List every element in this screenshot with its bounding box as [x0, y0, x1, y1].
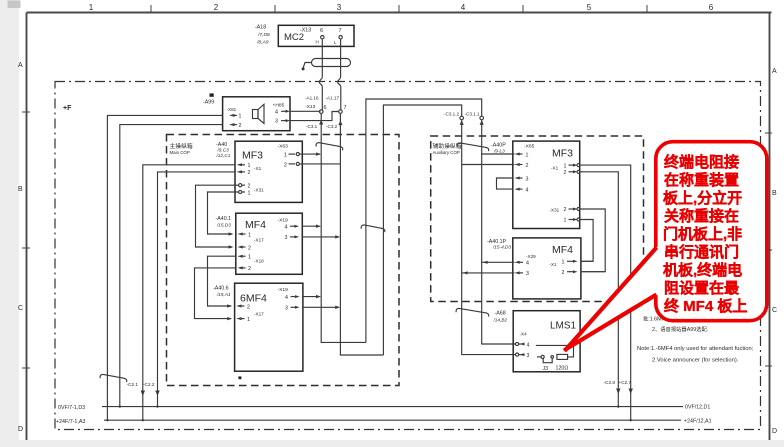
svg-text:A: A [18, 62, 23, 69]
right MF4 pin X29.3 [514, 271, 519, 274]
svg-text:H: H [316, 40, 319, 45]
svg-text:-X4: -X4 [520, 331, 528, 336]
wire H-chain down right section [482, 120, 516, 344]
svg-text:J3: J3 [543, 366, 549, 372]
speaker icon [253, 104, 265, 123]
wire X18.1 to 6MF4 pin2 [208, 256, 236, 306]
svg-text:终端电阻接: 终端电阻接 [664, 153, 739, 171]
MC2 controller box [278, 25, 354, 46]
left MF4 board box [236, 213, 302, 274]
wire X1.1 right and down to +24F bus [580, 165, 631, 420]
svg-text:-A68: -A68 [495, 310, 506, 316]
row ticks left [22, 112, 30, 368]
svg-text:0VF/12,D1: 0VF/12,D1 [685, 405, 710, 411]
svg-text:主操纵箱: 主操纵箱 [170, 142, 193, 150]
balloon tail [565, 246, 659, 351]
svg-text:-A18: -A18 [255, 25, 266, 31]
wire X31.2 to MF4 X17.2 [196, 185, 239, 247]
svg-text:+24F/12,A1: +24F/12,A1 [684, 418, 712, 424]
svg-text:/15-4,D3: /15-4,D3 [492, 244, 511, 249]
svg-text:-C3.1: -C3.1 [306, 124, 318, 129]
svg-text:4: 4 [527, 342, 530, 348]
right MF3 pin X65.1 [514, 153, 519, 156]
svg-text:-X65: -X65 [524, 144, 535, 150]
svg-text:4: 4 [526, 187, 529, 193]
designator -A18 for MC2 [255, 25, 270, 46]
svg-text:-C2.8: -C2.8 [604, 380, 616, 385]
svg-text:Main COP: Main COP [170, 150, 190, 155]
wire X19.4 to H-chain junction [302, 225, 319, 227]
svg-text:C: C [18, 305, 23, 312]
svg-text:1: 1 [248, 255, 251, 261]
wire MC2-6 down [321, 39, 323, 110]
svg-text:-C3.1.2: -C3.1.2 [444, 112, 460, 117]
cable break mark at +F boundary wire 7 [338, 77, 341, 87]
wire 6MF4 X19.4 to H-chain junction [303, 296, 320, 298]
svg-text:3: 3 [337, 3, 342, 12]
speaker pin 2 [229, 123, 235, 126]
svg-text:1: 1 [89, 3, 94, 12]
designator -A68 LMS1 [493, 310, 508, 322]
left MF3 pin X31.1 [239, 190, 242, 193]
svg-text:3: 3 [285, 306, 288, 312]
wire X1.2 left and down to 0VF bus [158, 172, 236, 407]
+F enclosure dash-dot box [55, 82, 761, 430]
svg-text:7: 7 [339, 28, 342, 34]
Auxiliary COP dashed box [431, 136, 644, 302]
svg-text:3: 3 [526, 271, 529, 277]
wire -C2.1 down arrow [141, 391, 145, 397]
svg-text:2、语音报站器A99选配.: 2、语音报站器A99选配. [652, 325, 708, 333]
svg-text:-A40.1: -A40.1 [216, 216, 232, 222]
wire X63.1 to H-chain junction [299, 153, 320, 155]
balloon text [663, 153, 747, 315]
svg-text:1: 1 [564, 218, 567, 224]
svg-text:MF4: MF4 [552, 244, 573, 256]
svg-text:MF3: MF3 [242, 150, 263, 162]
Main COP dashed box [167, 135, 400, 386]
svg-text:C: C [772, 307, 777, 314]
svg-text:5: 5 [587, 3, 592, 12]
svg-text:B: B [772, 190, 777, 197]
junction dots on buses [106, 405, 632, 421]
svg-text:阻设置在最: 阻设置在最 [664, 279, 740, 297]
svg-text:120Ω: 120Ω [556, 365, 569, 371]
wire X31.2 down to right MF4 pin2 [580, 209, 605, 272]
svg-text:2: 2 [247, 304, 250, 310]
ruler column ticks [151, 5, 647, 12]
svg-text:/8,A9: /8,A9 [256, 40, 269, 46]
marker square above A99 [210, 93, 214, 96]
wire -C2.2 down arrow [155, 391, 159, 397]
right MF3 pin X65.4 [514, 188, 519, 191]
speaker pin 4 arrow [281, 110, 287, 112]
svg-text:LMS1: LMS1 [550, 321, 577, 332]
terminal circle 6 lower [319, 110, 323, 114]
designator -A40.1 left MF4 [216, 216, 232, 228]
svg-text:2: 2 [248, 184, 251, 190]
ruler column numbers [89, 3, 714, 12]
LMS1 load weighing box [513, 311, 580, 372]
shield drain dot [302, 67, 305, 70]
svg-text:1: 1 [526, 152, 529, 158]
wire X63.2 to L-chain corner [299, 163, 340, 165]
svg-text:+C2.7: +C2.7 [619, 380, 632, 385]
right MF4 board box [513, 238, 581, 299]
left MF4 pin X18.1 [237, 255, 242, 258]
svg-text:-X1: -X1 [550, 262, 558, 267]
svg-text:板上,分立开: 板上,分立开 [663, 189, 742, 207]
svg-text:-X13: -X13 [305, 104, 316, 110]
svg-text:-C3.2: -C3.2 [326, 124, 338, 129]
wire X65.2 from L-chain [462, 164, 515, 166]
6MF4 board box [235, 283, 303, 371]
row ticks right [765, 133, 772, 366]
cable shield symbol [312, 59, 351, 67]
svg-text:-A99: -A99 [203, 100, 214, 106]
svg-text:2: 2 [239, 123, 242, 129]
svg-text:D: D [772, 428, 777, 435]
wire L-chain vertical from terminal 7 down to corner [340, 113, 383, 355]
svg-text:3: 3 [527, 353, 530, 359]
window gray corner square [8, 1, 21, 9]
wire H-chain riser up and right to -C3.1.1 [366, 99, 482, 342]
svg-text:-X17: -X17 [254, 311, 264, 316]
svg-text:+F: +F [63, 105, 72, 112]
terminal circle 7 [339, 36, 342, 39]
svg-text:6: 6 [324, 105, 327, 111]
LMS1 pin 4 [516, 342, 519, 345]
svg-text:1: 1 [284, 153, 287, 159]
svg-text:MF4: MF4 [245, 219, 266, 231]
svg-text:机板,终端电: 机板,终端电 [663, 261, 742, 279]
speaker H85 box [223, 97, 290, 131]
svg-text:-X17: -X17 [254, 238, 264, 243]
svg-text:-X31: -X31 [550, 208, 560, 213]
svg-text:2: 2 [248, 266, 251, 272]
wire X19.3 to L-chain junction [302, 236, 339, 238]
Main COP label [170, 142, 193, 155]
svg-text:1: 1 [248, 232, 251, 238]
cable break mark on left wires [100, 374, 127, 382]
svg-text:终 MF4 板上: 终 MF4 板上 [664, 297, 747, 315]
svg-text:-C2.2: -C2.2 [143, 382, 155, 387]
6MF4 pin 2 [236, 305, 241, 308]
svg-text:-X1: -X1 [254, 166, 262, 171]
svg-text:4: 4 [275, 109, 278, 115]
Auxiliary COP label [433, 142, 462, 155]
svg-text:3: 3 [285, 235, 288, 241]
svg-text:6: 6 [320, 28, 323, 34]
entry arrows below terminals [460, 120, 464, 125]
svg-text:D: D [18, 426, 23, 433]
svg-text:+24F/7-1,A3: +24F/7-1,A3 [56, 419, 85, 425]
svg-text:-X13: -X13 [300, 28, 311, 34]
left MF3 pin X31.2 [239, 184, 242, 187]
designator -A40.6 6MF4 [213, 286, 231, 297]
cable break mark at Main COP top [316, 143, 343, 151]
designator -A40 left MF3 [216, 142, 231, 158]
terminal circle -C3.1.1 [480, 116, 484, 120]
svg-text:-X29: -X29 [526, 254, 536, 259]
left MF3 pin X1.1 [237, 163, 242, 166]
entry arrows below terminals 6 and 7 [319, 120, 323, 125]
svg-text:4: 4 [285, 295, 288, 301]
cable break mark at Aux COP top [457, 143, 489, 151]
svg-text:-A40.6: -A40.6 [213, 286, 229, 292]
svg-text:6: 6 [709, 3, 714, 12]
cable break mark at +F boundary wire 6 [319, 77, 322, 86]
wire X29.4 from H-chain junction [482, 261, 515, 263]
svg-text:关称重接在: 关称重接在 [664, 207, 739, 225]
svg-text:/15,D3: /15,D3 [216, 223, 231, 228]
svg-text:在称重装置: 在称重装置 [664, 171, 739, 189]
shield drain wire [303, 63, 311, 68]
svg-text:4: 4 [461, 3, 466, 12]
right MF3 pin X65.3 [514, 177, 519, 180]
svg-text:2: 2 [248, 170, 251, 176]
svg-text:/9-L3: /9-L3 [493, 148, 505, 153]
svg-text:-X19: -X19 [278, 217, 289, 223]
left MF3 pin X1.2 [237, 170, 242, 173]
svg-text:0VF/7-1,D3: 0VF/7-1,D3 [58, 405, 85, 411]
wire X1.1 left and down to +24F bus [143, 165, 235, 420]
wire X65.1 from H-chain [482, 153, 515, 155]
svg-text:2: 2 [284, 162, 287, 168]
wire X1.2 right and down to 0VF bus [580, 172, 618, 407]
svg-text:1: 1 [564, 163, 567, 169]
speaker pin 1 [229, 114, 235, 117]
svg-text:/14,B2: /14,B2 [493, 318, 508, 323]
svg-text:Auxiliary COP: Auxiliary COP [433, 150, 460, 155]
svg-text:2: 2 [214, 3, 219, 12]
svg-text:2: 2 [564, 207, 567, 213]
wire X18.2 to 6MF4 pin1 [195, 268, 236, 319]
svg-text:-C3.1.1: -C3.1.1 [465, 112, 481, 117]
+24F bus line [104, 419, 681, 421]
wire L-chain down right section [462, 120, 516, 355]
red callout balloon [565, 142, 767, 351]
svg-text:/9,C3: /9,C3 [217, 148, 230, 153]
jumper J3 open strap [543, 358, 552, 362]
svg-text:7: 7 [344, 105, 347, 111]
left MF4 pin X17.1 [237, 233, 242, 236]
svg-text:1: 1 [247, 317, 250, 323]
svg-text:MC2: MC2 [284, 32, 304, 43]
svg-text:-A1.16: -A1.16 [305, 95, 319, 100]
left MF4 pin X18.2 [237, 266, 242, 269]
svg-text:2: 2 [564, 170, 567, 176]
jumper J3 stub [537, 356, 541, 358]
svg-text:3: 3 [526, 176, 529, 182]
wire -C2.8 down arrow [616, 389, 620, 395]
window gray left strip [0, 0, 19, 447]
svg-text:2: 2 [248, 245, 251, 251]
left MF3 board box [235, 141, 302, 202]
svg-text:串行通讯门: 串行通讯门 [664, 243, 739, 261]
jumper loop pins 3-4 [497, 178, 513, 189]
svg-text:B: B [18, 186, 23, 193]
svg-text:-A1.17: -A1.17 [326, 95, 340, 100]
wire +C2.7 down arrow [629, 389, 633, 395]
wire MF4 X1.2 to riser [581, 271, 605, 273]
wire MF4 X1.1 to riser [581, 260, 593, 262]
svg-text:1: 1 [248, 163, 251, 169]
wire X29.3 from L-chain junction [462, 272, 515, 274]
wire LMS1 pin4 to terminator [536, 345, 574, 357]
wire L-chain riser up and right to -C3.1.2 [383, 105, 461, 355]
svg-text:Note:1.-6MF4 only used for att: Note:1.-6MF4 only used for attendant fuc… [637, 346, 754, 352]
svg-text:2: 2 [526, 163, 529, 169]
wire X31.1 down to right MF4 pin1 [580, 220, 593, 262]
svg-text:2.Voice announcer (for selecti: 2.Voice announcer (for selection). [652, 357, 739, 363]
svg-text:-X1: -X1 [551, 166, 559, 171]
wire H-chain vertical from terminal 6 down to corner [321, 113, 366, 342]
6MF4 pin 1 [236, 317, 241, 320]
svg-text:-X63: -X63 [278, 144, 289, 150]
row letters left [18, 62, 23, 433]
svg-text:-X18: -X18 [254, 259, 264, 264]
wire speaker pin2 left and down to 0VF bus [120, 125, 223, 407]
svg-text:+H85: +H85 [273, 102, 285, 108]
wire X31.1 to MF4 X17.1 [208, 192, 239, 234]
svg-text:MF3: MF3 [552, 148, 573, 160]
left MF4 pin X17.2 [237, 246, 242, 249]
designator -A40P right MF3 [491, 143, 506, 154]
0VF bus line [102, 406, 683, 408]
svg-text:-X31: -X31 [254, 187, 264, 192]
svg-text:/7,D8: /7,D8 [257, 32, 270, 38]
cable break mark above LMS1 [456, 308, 489, 316]
cable break mark on risers [361, 225, 385, 232]
svg-text:/12,C1: /12,C1 [216, 153, 231, 158]
wire MC2-7 down [340, 39, 342, 110]
svg-text:3: 3 [275, 119, 278, 125]
designator -A40.1P right MF4 [487, 239, 511, 250]
svg-text:门机板上,非: 门机板上,非 [663, 225, 742, 243]
window gray bottom strip [19, 440, 784, 447]
right MF4 pin X29.4 [514, 261, 519, 264]
terminator resistor 120ohm [557, 354, 568, 359]
svg-text:1: 1 [239, 114, 242, 120]
svg-text:-X19: -X19 [278, 287, 289, 293]
jumper J3 circles [551, 356, 554, 359]
svg-text:6MF4: 6MF4 [240, 293, 267, 305]
marker square below 6MF4 [238, 376, 241, 379]
svg-text:-X81: -X81 [227, 107, 237, 112]
svg-text:4: 4 [285, 225, 288, 231]
svg-text:-C2.1: -C2.1 [127, 382, 139, 387]
svg-text:/15,A1: /15,A1 [216, 292, 231, 297]
wire pin3 to terminal 7 [290, 112, 339, 121]
terminal circle -C3.1.2 [460, 116, 464, 120]
wire pin4 to terminal 6 [290, 110, 321, 112]
wire speaker pin1 left and down to +24F bus [107, 115, 222, 420]
row letters right [772, 68, 777, 435]
LMS1 pin 3 [516, 353, 519, 356]
terminal circle 6 [321, 36, 324, 39]
right MF3 board box [513, 141, 580, 228]
svg-text:1: 1 [248, 190, 251, 196]
svg-text:2: 2 [562, 270, 565, 276]
wire 6MF4 X19.3 to L-chain junction [303, 306, 339, 308]
svg-text:4: 4 [526, 261, 529, 267]
speaker pin 3 arrow [281, 120, 287, 122]
svg-text:A: A [772, 68, 777, 75]
svg-text:1: 1 [562, 260, 565, 266]
terminal circle 7 lower [339, 110, 343, 114]
right MF3 pin X65.2 [514, 163, 519, 166]
